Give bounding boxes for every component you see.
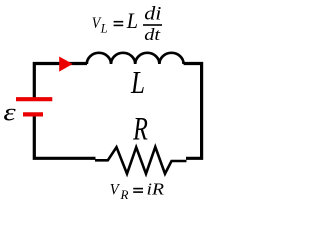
svg-text:ε: ε [3,99,16,126]
svg-text:L: L [126,8,138,33]
svg-text:V: V [110,181,120,199]
svg-text:L: L [130,65,145,101]
svg-text:R: R [120,187,129,202]
svg-text:di: di [144,4,162,24]
svg-text:R: R [132,111,148,147]
svg-text:dt: dt [144,25,161,44]
svg-text:L: L [100,22,108,36]
svg-text:iR: iR [147,180,164,198]
